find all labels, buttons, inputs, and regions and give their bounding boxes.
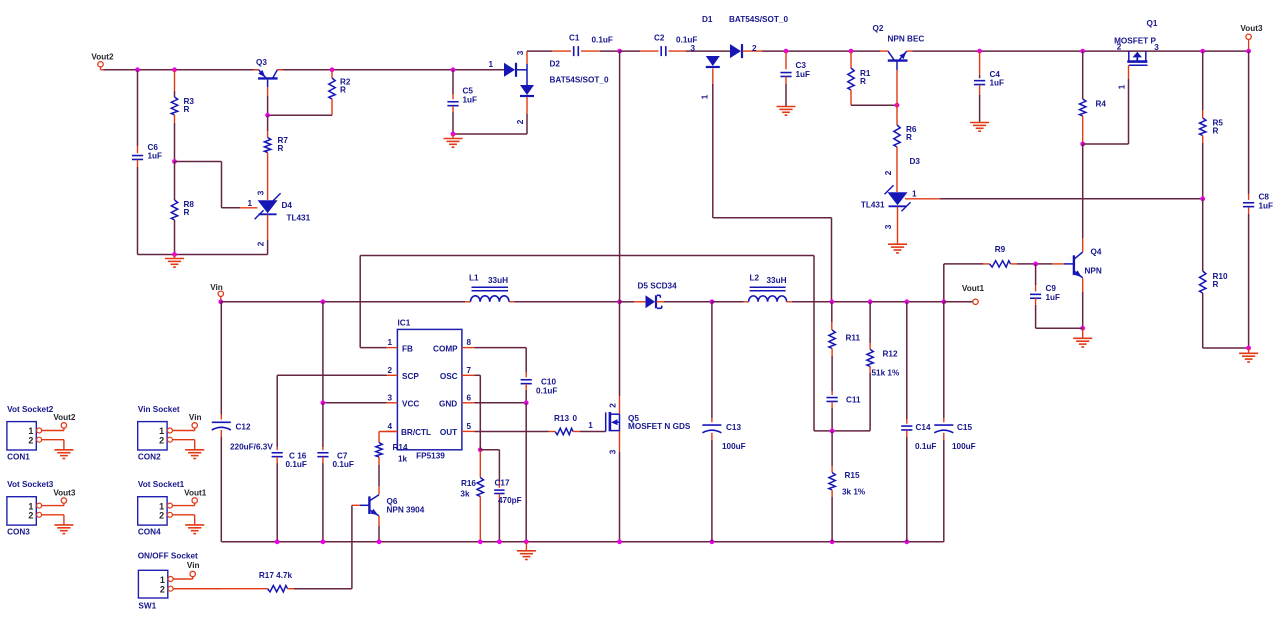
svg-text:R: R [906, 133, 912, 142]
svg-text:1: 1 [387, 338, 392, 347]
svg-text:BAT54S/SOT_0: BAT54S/SOT_0 [550, 76, 609, 85]
svg-text:OUT: OUT [440, 428, 457, 437]
svg-text:VCC: VCC [402, 400, 419, 409]
svg-text:1uF: 1uF [796, 70, 811, 79]
svg-text:D1: D1 [702, 15, 713, 24]
svg-text:C9: C9 [1046, 284, 1057, 293]
svg-text:33uH: 33uH [488, 276, 508, 285]
svg-text:0.1uF: 0.1uF [915, 442, 936, 451]
svg-text:SW1: SW1 [138, 601, 156, 610]
svg-text:0: 0 [573, 414, 578, 423]
svg-text:1uF: 1uF [1046, 293, 1061, 302]
svg-text:C17: C17 [495, 479, 510, 488]
svg-text:C2: C2 [654, 34, 665, 43]
svg-text:2: 2 [609, 403, 618, 408]
svg-text:1: 1 [160, 575, 165, 585]
svg-text:5: 5 [467, 422, 472, 431]
svg-text:Vin: Vin [187, 561, 200, 570]
svg-text:R13: R13 [554, 414, 569, 423]
svg-text:Q3: Q3 [256, 58, 267, 67]
svg-text:3k: 3k [460, 489, 470, 498]
svg-text:2: 2 [884, 170, 893, 175]
svg-text:D4: D4 [282, 201, 293, 210]
svg-text:R17 4.7k: R17 4.7k [259, 571, 293, 580]
svg-text:2: 2 [160, 584, 165, 594]
svg-text:C15: C15 [957, 423, 972, 432]
svg-text:1: 1 [1118, 84, 1127, 89]
svg-text:8: 8 [467, 338, 472, 347]
svg-text:R: R [340, 86, 346, 95]
svg-text:NPN BEC: NPN BEC [888, 35, 925, 44]
svg-text:Vout2: Vout2 [53, 413, 76, 422]
svg-text:1uF: 1uF [148, 152, 163, 161]
svg-text:2: 2 [28, 435, 33, 445]
svg-text:C12: C12 [236, 423, 251, 432]
svg-text:3: 3 [1154, 43, 1159, 52]
svg-text:C11: C11 [846, 396, 861, 405]
svg-text:Vin Socket: Vin Socket [138, 405, 180, 414]
svg-text:100uF: 100uF [722, 442, 746, 451]
svg-text:3: 3 [690, 44, 695, 53]
svg-text:Vot Socket2: Vot Socket2 [7, 405, 54, 414]
svg-text:R15: R15 [845, 471, 860, 480]
svg-text:CON3: CON3 [7, 528, 30, 537]
svg-text:C10: C10 [541, 378, 556, 387]
svg-text:Vin: Vin [189, 413, 202, 422]
svg-text:R: R [860, 77, 866, 86]
svg-text:SCP: SCP [402, 372, 419, 381]
svg-text:2: 2 [257, 241, 266, 246]
svg-text:COMP: COMP [433, 344, 458, 353]
svg-text:1: 1 [912, 190, 917, 199]
svg-text:1uF: 1uF [463, 96, 478, 105]
svg-text:C1: C1 [569, 34, 580, 43]
svg-text:BR/CTL: BR/CTL [401, 428, 431, 437]
svg-text:R: R [184, 208, 190, 217]
svg-text:100uF: 100uF [952, 442, 976, 451]
svg-text:220uF/6.3V: 220uF/6.3V [230, 443, 273, 452]
svg-text:C14: C14 [916, 423, 931, 432]
svg-text:C3: C3 [796, 61, 807, 70]
svg-text:1: 1 [247, 199, 252, 208]
svg-text:R4: R4 [1096, 100, 1107, 109]
svg-text:2: 2 [752, 44, 757, 53]
svg-text:R: R [278, 144, 284, 153]
svg-text:1: 1 [488, 60, 493, 69]
svg-text:2: 2 [387, 366, 392, 375]
svg-text:Vot Socket3: Vot Socket3 [7, 480, 54, 489]
svg-text:C8: C8 [1259, 193, 1270, 202]
svg-text:2: 2 [159, 511, 164, 521]
svg-text:D5 SCD34: D5 SCD34 [638, 282, 678, 291]
svg-text:R14: R14 [392, 443, 407, 452]
svg-text:4: 4 [387, 422, 392, 431]
svg-text:3: 3 [884, 224, 893, 229]
svg-text:3: 3 [257, 190, 266, 195]
svg-text:3: 3 [609, 449, 618, 454]
svg-text:R11: R11 [846, 334, 861, 343]
svg-text:D3: D3 [910, 157, 921, 166]
svg-text:1uF: 1uF [990, 79, 1005, 88]
svg-text:1k: 1k [398, 455, 408, 464]
svg-text:R12: R12 [883, 350, 898, 359]
svg-text:0.1uF: 0.1uF [536, 387, 557, 396]
svg-text:51k 1%: 51k 1% [872, 369, 900, 378]
svg-text:Vout3: Vout3 [53, 488, 76, 497]
svg-text:0.1uF: 0.1uF [592, 36, 613, 45]
svg-text:L2: L2 [750, 274, 760, 283]
svg-text:R: R [184, 105, 190, 114]
svg-text:0.1uF: 0.1uF [333, 460, 354, 469]
svg-text:33uH: 33uH [767, 276, 787, 285]
svg-text:D2: D2 [550, 60, 561, 69]
svg-text:Q2: Q2 [873, 24, 884, 33]
svg-text:R16: R16 [461, 479, 476, 488]
svg-text:TL431: TL431 [287, 214, 311, 223]
svg-text:2: 2 [159, 435, 164, 445]
svg-text:GND: GND [439, 400, 457, 409]
svg-text:BAT54S/SOT_0: BAT54S/SOT_0 [729, 15, 788, 24]
svg-text:NPN 3904: NPN 3904 [387, 506, 425, 515]
svg-text:2: 2 [28, 511, 33, 521]
svg-text:470pF: 470pF [498, 496, 522, 505]
svg-text:2: 2 [516, 119, 525, 124]
svg-text:Vot Socket1: Vot Socket1 [138, 480, 185, 489]
svg-text:IC1: IC1 [398, 319, 411, 328]
svg-text:FB: FB [402, 344, 413, 353]
svg-text:CON1: CON1 [7, 453, 30, 462]
svg-text:6: 6 [467, 393, 472, 402]
svg-text:1uF: 1uF [1259, 202, 1274, 211]
svg-text:FP5139: FP5139 [416, 452, 445, 461]
svg-text:ON/OFF Socket: ON/OFF Socket [138, 552, 198, 561]
svg-text:MOSFET N GDS: MOSFET N GDS [628, 422, 691, 431]
svg-text:Q1: Q1 [1147, 19, 1158, 28]
svg-text:L1: L1 [469, 274, 479, 283]
svg-text:Vout3: Vout3 [1240, 24, 1263, 33]
svg-text:R9: R9 [995, 245, 1006, 254]
svg-text:Vout1: Vout1 [962, 284, 985, 293]
svg-text:0.1uF: 0.1uF [286, 460, 307, 469]
svg-text:2: 2 [1117, 43, 1122, 52]
svg-text:C13: C13 [726, 423, 741, 432]
svg-text:1: 1 [701, 94, 710, 99]
svg-text:Vout2: Vout2 [91, 53, 114, 62]
svg-text:3: 3 [387, 393, 392, 402]
svg-text:7: 7 [467, 366, 472, 375]
svg-text:3: 3 [516, 50, 525, 55]
svg-text:Vout1: Vout1 [184, 488, 207, 497]
svg-text:Q4: Q4 [1091, 248, 1102, 257]
svg-text:3k 1%: 3k 1% [842, 488, 866, 497]
svg-text:R: R [1213, 127, 1219, 136]
svg-text:C5: C5 [463, 87, 474, 96]
svg-text:CON2: CON2 [138, 453, 161, 462]
svg-text:NPN: NPN [1085, 267, 1102, 276]
svg-text:R: R [1213, 280, 1219, 289]
svg-text:OSC: OSC [440, 372, 458, 381]
svg-text:TL431: TL431 [861, 201, 885, 210]
svg-text:CON4: CON4 [138, 528, 161, 537]
svg-text:1: 1 [588, 421, 593, 430]
